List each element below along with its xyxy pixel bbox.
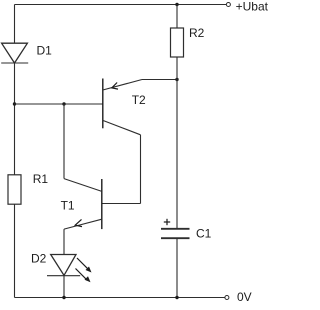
wire left rail lower <box>14 204 16 297</box>
wire right rail bottom <box>176 238 178 297</box>
svg-text:R2: R2 <box>189 26 205 40</box>
wire bottom rail <box>15 297 225 299</box>
node emitter-rail junction <box>175 78 178 81</box>
wire T1 collector vertical <box>63 104 65 179</box>
wire T1 emitter to D2 <box>63 229 65 254</box>
node T1-collector branch <box>62 102 65 105</box>
capacitor C1 <box>161 219 190 238</box>
wire T2 emitter to right rail <box>142 79 177 81</box>
led D2 <box>47 255 92 283</box>
svg-text:0V: 0V <box>237 290 252 304</box>
wire left rail mid <box>14 63 16 175</box>
wire T2 collector to T1 base <box>102 135 141 204</box>
resistor R1 <box>8 175 21 204</box>
svg-text:D1: D1 <box>37 44 53 58</box>
resistor R2 <box>171 28 184 57</box>
wire right rail top <box>176 5 178 29</box>
terminal +Ubat <box>226 3 230 7</box>
wire right rail middle <box>176 57 178 228</box>
node bottom-left junction <box>62 296 65 299</box>
wire left rail upper <box>14 5 16 44</box>
svg-text:C1: C1 <box>196 226 212 240</box>
terminal 0V <box>225 296 229 300</box>
svg-text:+Ubat: +Ubat <box>236 0 268 14</box>
node base-left junction <box>13 102 16 105</box>
wire D2 to bottom rail <box>63 276 65 298</box>
node bottom-right junction <box>175 296 178 299</box>
node R2 top <box>175 3 178 6</box>
transistor T2 <box>103 79 142 135</box>
svg-text:R1: R1 <box>33 172 49 186</box>
svg-text:D2: D2 <box>31 252 47 266</box>
wire top rail <box>15 4 227 6</box>
svg-text:T2: T2 <box>132 93 146 107</box>
svg-text:T1: T1 <box>61 198 75 212</box>
diode D1 <box>1 43 28 63</box>
transistor T1 <box>64 179 102 230</box>
wire T2 base <box>15 103 103 105</box>
